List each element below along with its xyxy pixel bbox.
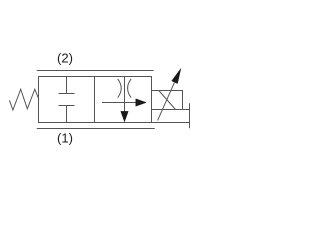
flow arrow horizontal shaft (102, 102, 137, 104)
proportional arrow head (172, 69, 181, 84)
spring (9, 89, 39, 110)
proportional arrow shaft (158, 83, 175, 121)
flow arrow down head (121, 111, 128, 121)
solenoid diagonal (159, 91, 176, 110)
blocked port stub bottom (66, 106, 68, 123)
wire port 2 rail (37, 70, 154, 72)
wire position divider (94, 77, 96, 123)
throttle arc left (118, 79, 122, 98)
flow arrow horizontal head (136, 99, 146, 106)
wire solenoid bottom extension (183, 109, 190, 111)
blocked port plate bottom (59, 105, 75, 107)
blocked port stub top (left position) (66, 77, 68, 94)
svg-text:(2): (2) (57, 51, 73, 66)
port 3 bar (189, 103, 191, 128)
wire port 1 rail (37, 128, 155, 130)
blocked port plate top (59, 93, 75, 95)
svg-text:(1): (1) (57, 130, 73, 145)
throttle arc right (128, 79, 132, 98)
valve body envelope (39, 77, 152, 123)
solenoid box U1 (152, 91, 183, 110)
wire drain line (152, 122, 190, 124)
throttle flow line (right position) (124, 77, 126, 113)
